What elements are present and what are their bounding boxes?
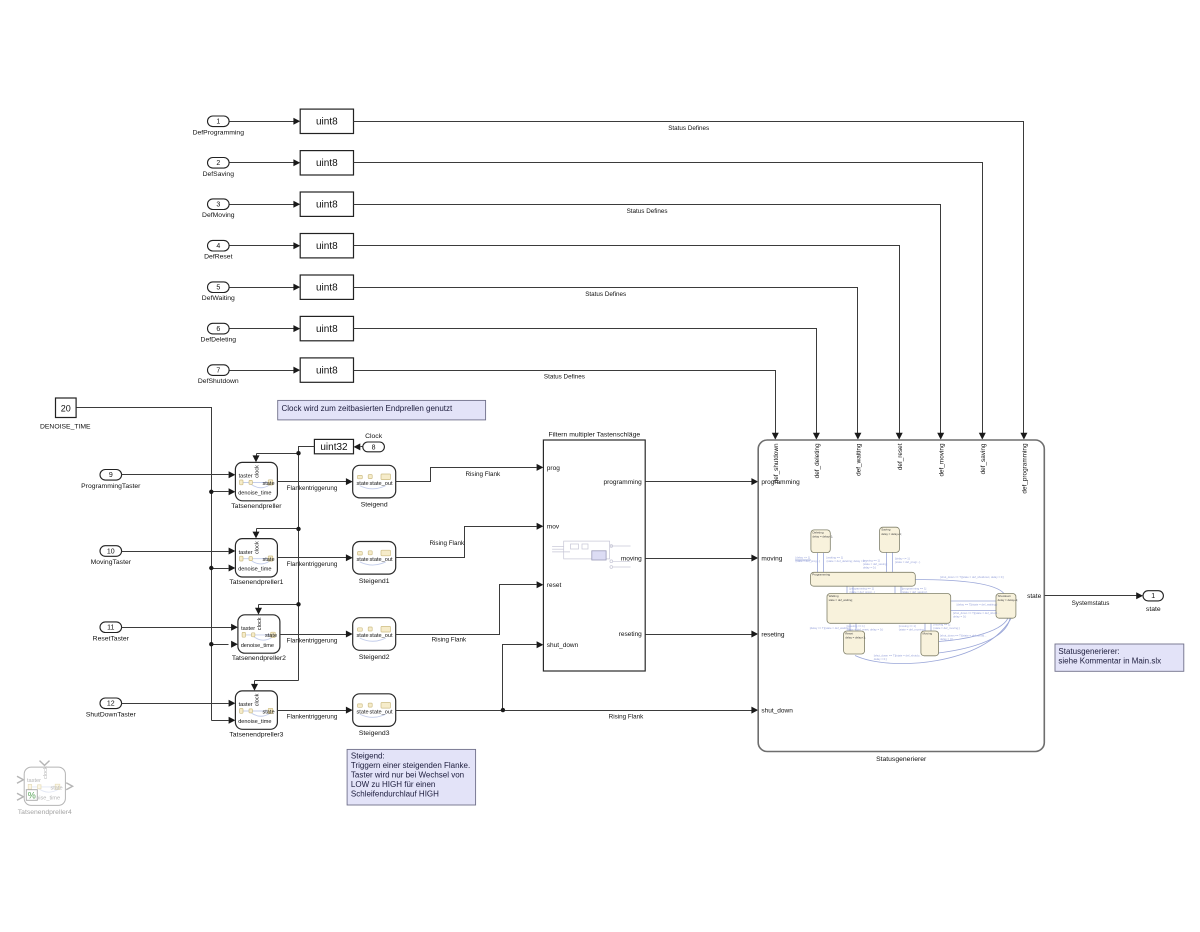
svg-text:Tatsenendpreller3: Tatsenendpreller3 [229, 731, 283, 738]
input port 11 ResetTaster [93, 622, 130, 643]
wire Steigend1 to Filtern mov (Rising Flank) [396, 523, 544, 558]
svg-text:state_out: state_out [369, 709, 392, 715]
input port 3 DefMoving [202, 199, 235, 219]
wire uint8 row 4 to Statusgenerierer (def_reset) [354, 246, 903, 440]
subsystem block Tatsenendpreller2 [232, 615, 286, 662]
svg-text:DefReset: DefReset [204, 254, 232, 261]
svg-text:def_shutdown: def_shutdown [773, 443, 780, 483]
wire port 3 to uint8 [230, 201, 301, 208]
subsystem block Steigend [353, 465, 396, 508]
svg-text:state: state [262, 481, 274, 487]
wire DENOISE_TIME net [77, 408, 238, 724]
svg-text:def_programming: def_programming [1022, 443, 1029, 494]
svg-text:uint8: uint8 [316, 117, 338, 128]
svg-text:uint8: uint8 [316, 366, 338, 377]
svg-text:%: % [28, 791, 36, 801]
wire port 5 to uint8 [230, 284, 301, 291]
svg-text:state: state [262, 557, 274, 563]
input port 1 DefProgramming [193, 116, 245, 136]
svg-text:Taster wird nur bei Wechsel vo: Taster wird nur bei Wechsel von [351, 770, 464, 779]
svg-text:state: state [357, 481, 369, 487]
svg-text:def_deleting: def_deleting [814, 443, 821, 478]
svg-text:taster: taster [239, 550, 253, 556]
subsystem block Steigend2 [353, 618, 396, 661]
svg-text:DefMoving: DefMoving [202, 212, 235, 219]
svg-text:Status Defines: Status Defines [627, 208, 668, 215]
svg-text:3: 3 [216, 202, 220, 209]
svg-text:denoise_time: denoise_time [238, 719, 271, 725]
svg-text:Flankentriggerung: Flankentriggerung [287, 561, 338, 568]
clock input port 8 [363, 433, 385, 452]
svg-text:11: 11 [107, 625, 114, 632]
svg-text:ProgrammingTaster: ProgrammingTaster [81, 483, 141, 490]
data type conversion block uint8 (row 6) [300, 316, 353, 340]
svg-text:denoise_time: denoise_time [238, 490, 271, 496]
wire port 1 to uint8 [230, 118, 301, 125]
data type conversion block uint8 (row 2) [300, 151, 353, 175]
svg-text:LOW zu HIGH für einen: LOW zu HIGH für einen [351, 780, 435, 789]
svg-text:DefDeleting: DefDeleting [201, 337, 237, 344]
svg-text:shut_down: shut_down [761, 708, 793, 715]
svg-text:prog: prog [547, 465, 560, 472]
wire port 12 to Tatsenendpreller3 taster input [122, 700, 236, 707]
wire Tatsenendpreller1 state to Steigend1 (Flankentriggerung) [278, 554, 353, 561]
svg-text:Moving: Moving [923, 631, 933, 635]
wire Tatsenendpreller3 state to Steigend3 (Flankentriggerung) [278, 707, 353, 714]
svg-text:clock: clock [257, 617, 263, 630]
svg-text:Tatsenendpreller1: Tatsenendpreller1 [229, 579, 283, 586]
svg-text:1: 1 [216, 119, 220, 126]
svg-text:siehe Kommentar in Main.slx: siehe Kommentar in Main.slx [1058, 656, 1161, 665]
svg-text:delay = delay+1;: delay = delay+1; [813, 535, 834, 539]
wire port 9 to Tatsenendpreller taster input [122, 471, 236, 478]
svg-text:{state = def_reset; delay = 0;: {state = def_reset; delay = 0;} [847, 628, 884, 632]
data type conversion block uint8 (row 5) [300, 275, 353, 299]
subsystem block Filtern multipler Tastenschlaege [543, 432, 645, 671]
svg-text:taster: taster [239, 474, 253, 480]
wire port 6 to uint8 [230, 325, 301, 332]
svg-text:state: state [357, 633, 369, 639]
wire Filtern moving to Statusgenerierer [646, 555, 759, 562]
svg-text:uint8: uint8 [316, 200, 338, 211]
svg-text:DefProgramming: DefProgramming [193, 129, 245, 136]
svg-text:denoise_time: denoise_time [238, 567, 271, 573]
svg-text:def_saving: def_saving [980, 443, 987, 474]
svg-text:uint32: uint32 [320, 442, 348, 453]
wire uint8 row 3 to Statusgenerierer (def_moving) [354, 205, 945, 440]
input port 9 ProgrammingTaster [81, 470, 141, 491]
subsystem block Tatsenendpreller [231, 462, 282, 509]
svg-text:ShutDownTaster: ShutDownTaster [86, 712, 137, 719]
svg-text:7: 7 [216, 368, 220, 375]
svg-text:Steigend3: Steigend3 [359, 730, 390, 737]
svg-text:1: 1 [1151, 593, 1155, 600]
svg-text:programming: programming [604, 479, 643, 486]
svg-text:4: 4 [216, 243, 220, 250]
svg-text:Statusgenerierer: Statusgenerierer [876, 756, 927, 763]
svg-text:Statusgenerierer:: Statusgenerierer: [1058, 647, 1119, 656]
svg-text:Schleifendurchlauf HIGH: Schleifendurchlauf HIGH [351, 789, 439, 798]
svg-text:DefWaiting: DefWaiting [202, 295, 235, 302]
input port 5 DefWaiting [202, 282, 235, 302]
svg-text:programming: programming [761, 479, 800, 486]
svg-text:{state = def_moving;}: {state = def_moving;} [899, 628, 925, 632]
svg-text:Status Defines: Status Defines [585, 291, 626, 298]
svg-text:denoise_time: denoise_time [241, 643, 274, 649]
svg-text:[delay == T]{state = def_waiti: [delay == T]{state = def_waiting;} [810, 626, 851, 630]
wire port 2 to uint8 [230, 159, 301, 166]
svg-text:moving: moving [761, 555, 782, 562]
svg-text:9: 9 [109, 472, 113, 479]
svg-text:uint8: uint8 [316, 324, 338, 335]
svg-text:state: state [265, 633, 277, 639]
svg-text:Steigend1: Steigend1 [359, 578, 390, 585]
annotation note: Clock wird zum zeitbasierten Endprellen genutzt [278, 400, 486, 420]
svg-text:Rising Flank: Rising Flank [609, 714, 644, 721]
svg-text:taster: taster [239, 702, 253, 708]
svg-text:def_waiting: def_waiting [856, 443, 863, 476]
svg-text:delay = delay+1;: delay = delay+1; [845, 636, 866, 640]
data type conversion block uint8 (row 7) [300, 358, 353, 382]
svg-text:delay = 0;}: delay = 0;} [874, 657, 887, 661]
wire Tatsenendpreller state to Steigend (Flankentriggerung) [278, 478, 353, 485]
wire Filtern reseting to Statusgenerierer [646, 631, 759, 638]
wire port 7 to uint8 [230, 367, 301, 374]
svg-text:{state = def_progr...}: {state = def_progr...} [850, 590, 875, 594]
svg-text:[delay == T]{state = def_waiti: [delay == T]{state = def_waiting;} [957, 602, 998, 606]
svg-text:6: 6 [216, 326, 220, 333]
svg-text:def_reset: def_reset [897, 443, 904, 470]
svg-text:DefShutdown: DefShutdown [198, 378, 239, 385]
subsystem block Steigend3 [353, 694, 396, 737]
svg-text:Steigend2: Steigend2 [359, 654, 390, 661]
svg-text:clock: clock [43, 766, 49, 779]
svg-text:Tatsenendpreller4: Tatsenendpreller4 [18, 809, 72, 816]
svg-text:Status Defines: Status Defines [544, 374, 585, 381]
svg-text:Flankentriggerung: Flankentriggerung [287, 714, 338, 721]
svg-text:state: state [1146, 606, 1161, 613]
data type conversion block uint8 (row 3) [300, 192, 353, 216]
svg-text:DENOISE_TIME: DENOISE_TIME [40, 424, 91, 431]
input port 10 MovingTaster [91, 546, 132, 567]
wire uint8 row 5 to Statusgenerierer (def_waiting) [354, 288, 862, 440]
svg-text:ResetTaster: ResetTaster [93, 635, 130, 642]
svg-text:delay = 0;}: delay = 0;} [863, 566, 876, 570]
wire Statusgenerierer state to output port (Systemstatus) [1045, 592, 1144, 599]
svg-text:5: 5 [216, 285, 220, 292]
svg-text:state: state [357, 557, 369, 563]
wire port 11 to Tatsenendpreller2 taster input [122, 624, 238, 631]
svg-text:{state = def_moving;}: {state = def_moving;} [933, 626, 959, 630]
svg-text:Rising Flank: Rising Flank [429, 540, 464, 547]
subsystem block Steigend1 [353, 542, 396, 585]
wire Filtern programming to Statusgenerierer [646, 478, 759, 485]
svg-text:shut_down: shut_down [547, 642, 579, 649]
wire port 10 to Tatsenendpreller1 taster input [122, 548, 236, 555]
svg-text:Tatsenendpreller2: Tatsenendpreller2 [232, 655, 286, 662]
annotation note: Statusgenerierer siehe Kommentar [1055, 644, 1184, 671]
wire uint8 row 7 to Statusgenerierer (def_shutdown) [354, 371, 779, 440]
svg-text:2: 2 [216, 160, 220, 167]
svg-text:def_moving: def_moving [938, 443, 945, 476]
svg-text:clock: clock [255, 541, 261, 554]
svg-text:state_out: state_out [369, 481, 392, 487]
state chart inside Statusgenerierer [795, 527, 1018, 663]
svg-text:uint8: uint8 [316, 283, 338, 294]
annotation note: Steigend explanation [347, 749, 476, 805]
constant block DENOISE_TIME value 20 [40, 398, 91, 431]
svg-text:reseting: reseting [619, 631, 643, 638]
wire Steigend2 to Filtern reset (Rising Flank) [396, 581, 544, 634]
svg-text:clock: clock [255, 465, 261, 478]
input port 6 DefDeleting [201, 323, 237, 343]
svg-text:reseting: reseting [761, 631, 785, 638]
input port 4 DefReset [204, 240, 232, 260]
output port 1 state [1143, 591, 1163, 613]
svg-text:state: state [262, 709, 274, 715]
svg-text:Steigend:: Steigend: [351, 751, 385, 760]
svg-text:state_out: state_out [369, 633, 392, 639]
subsystem block Statusgenerierer [758, 440, 1044, 763]
svg-text:Clock wird zum zeitbasierten E: Clock wird zum zeitbasierten Endprellen … [282, 404, 454, 413]
comment-through percent icon [26, 790, 37, 801]
svg-text:8: 8 [372, 444, 376, 451]
svg-text:20: 20 [61, 403, 71, 413]
svg-text:Flankentriggerung: Flankentriggerung [287, 485, 338, 492]
svg-text:delay = delay+1;: delay = delay+1; [881, 532, 902, 536]
svg-text:clock: clock [255, 693, 261, 706]
svg-text:Triggern einer steigenden Flan: Triggern einer steigenden Flanke. [351, 761, 470, 770]
svg-text:delay = delay+1;: delay = delay+1; [998, 598, 1019, 602]
svg-text:Flankentriggerung: Flankentriggerung [287, 637, 338, 644]
svg-text:uint8: uint8 [316, 158, 338, 169]
data type conversion block uint8 (row 1) [300, 109, 353, 133]
wire uint8 row 6 to Statusgenerierer (def_deleting) [354, 329, 820, 440]
subsystem block Tatsenendpreller1 [229, 539, 283, 586]
svg-text:{state = def_progr...}: {state = def_progr...} [895, 560, 920, 564]
svg-text:state: state [1027, 593, 1041, 600]
input port 12 ShutDownTaster [86, 698, 137, 719]
svg-text:taster: taster [241, 626, 255, 632]
svg-text:10: 10 [107, 548, 115, 555]
subsystem block Tatsenendpreller3 [229, 691, 283, 738]
data type conversion block uint32 [314, 439, 353, 453]
svg-text:{state = def_prog...}: {state = def_prog...} [796, 559, 821, 563]
svg-text:Status Defines: Status Defines [668, 125, 709, 132]
svg-text:Rising Flank: Rising Flank [465, 471, 500, 478]
commented-out subsystem block Tatsenendpreller4 (faded) [17, 761, 73, 806]
wire Steigend3 to Filtern shut_down and Statusgenerierer (Rising Flank) [396, 641, 759, 713]
svg-text:{state = def_deleting; delay =: {state = def_deleting; delay = 0;} [827, 559, 867, 563]
data type conversion block uint8 (row 4) [300, 234, 353, 258]
wire Clock port to uint32 [354, 443, 363, 450]
svg-text:Programming: Programming [812, 573, 830, 577]
wire uint8 row 2 to Statusgenerierer (def_saving) [354, 163, 986, 440]
svg-text:Filtern multipler Tastenschläg: Filtern multipler Tastenschläge [548, 432, 640, 439]
wire clock net (uint32 output distribution) [251, 447, 315, 691]
svg-text:DefSaving: DefSaving [203, 171, 235, 178]
svg-text:{state = def_saving;}: {state = def_saving;} [902, 590, 927, 594]
svg-text:Clock: Clock [365, 433, 383, 440]
svg-text:MovingTaster: MovingTaster [91, 559, 132, 566]
svg-text:state_out: state_out [369, 557, 392, 563]
wire Tatsenendpreller2 state to Steigend2 (Flankentriggerung) [280, 631, 353, 638]
svg-text:state: state [50, 785, 62, 791]
wire uint8 row 1 to Statusgenerierer (def_programming) [354, 122, 1028, 440]
svg-text:state = def_waiting;: state = def_waiting; [829, 598, 853, 602]
wire Steigend to Filtern prog (Rising Flank) [396, 464, 544, 482]
svg-text:Steigend: Steigend [361, 502, 388, 509]
svg-text:12: 12 [107, 701, 115, 708]
wire port 4 to uint8 [230, 242, 301, 249]
svg-text:taster: taster [27, 778, 41, 784]
svg-text:Rising Flank: Rising Flank [432, 636, 467, 643]
input port 7 DefShutdown [198, 365, 239, 385]
svg-text:[shut_down == T]{state = def_s: [shut_down == T]{state = def_shutdown; d… [940, 575, 1004, 579]
input port 2 DefSaving [203, 158, 235, 178]
svg-text:mov: mov [547, 524, 560, 531]
svg-text:Systemstatus: Systemstatus [1072, 600, 1110, 607]
svg-text:Tatsenendpreller: Tatsenendpreller [231, 503, 282, 510]
svg-text:uint8: uint8 [316, 241, 338, 252]
svg-text:state: state [357, 709, 369, 715]
svg-text:delay = 0;}: delay = 0;} [940, 637, 953, 641]
svg-text:delay = 0;}: delay = 0;} [953, 614, 966, 618]
svg-text:reset: reset [547, 582, 562, 589]
